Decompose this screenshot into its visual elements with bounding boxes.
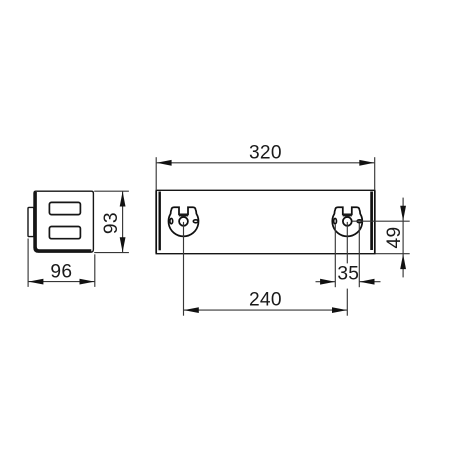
right socket centerline upper segment / dim 240 extension right bbox=[346, 222, 348, 264]
lamp socket left bbox=[169, 207, 199, 236]
dim 240 arrow left bbox=[184, 307, 199, 313]
svg-text:96: 96 bbox=[50, 261, 72, 282]
front view left outline edge (darkened) bbox=[155, 191, 157, 254]
dim 93 arrow down bbox=[120, 237, 126, 252]
dim 96 extension line left bbox=[27, 239, 29, 287]
dim 320 extension line right bbox=[374, 157, 376, 189]
dim 93 line bbox=[122, 191, 124, 252]
dim 240 arrow right bbox=[332, 307, 347, 313]
front view left end cap line bbox=[158, 192, 160, 251]
front view right end cap line bbox=[370, 192, 373, 251]
dim 320 arrow left bbox=[157, 160, 172, 166]
mounting tab bbox=[28, 207, 34, 236]
dim 49 arrow up (below lower line) bbox=[400, 254, 406, 269]
side view box outline bbox=[34, 191, 93, 252]
dim 49 line bbox=[402, 198, 404, 278]
dim 49 arrow down (above upper line) bbox=[400, 206, 406, 221]
dim 240 line bbox=[184, 309, 347, 311]
svg-text:93: 93 bbox=[101, 212, 122, 234]
dim 35 extension line right (from right pin) bbox=[358, 224, 360, 288]
dim 93 extension line top bbox=[94, 190, 129, 192]
front view box outline bbox=[156, 190, 375, 253]
dim 49 extension line upper (socket center) bbox=[353, 220, 410, 222]
lower slot bbox=[49, 227, 80, 239]
right socket centerline lower segment bbox=[346, 289, 348, 316]
svg-text:240: 240 bbox=[249, 289, 282, 310]
side view thick left+bottom edge bbox=[35, 192, 91, 251]
svg-text:49: 49 bbox=[384, 227, 405, 249]
dim 96 line bbox=[28, 281, 94, 283]
dim 35 tail line left bbox=[316, 281, 336, 283]
dim 35 arrow right (pointing left) bbox=[360, 279, 375, 285]
dim 93 extension line bottom bbox=[94, 252, 129, 254]
dim 320 arrow right bbox=[359, 160, 374, 166]
lamp socket right bbox=[332, 207, 362, 236]
svg-text:320: 320 bbox=[249, 142, 282, 163]
dim 96 arrow right bbox=[80, 279, 95, 285]
dim 96 arrow left bbox=[28, 279, 43, 285]
svg-text:35: 35 bbox=[337, 263, 359, 284]
dim 93 arrow up bbox=[120, 192, 126, 207]
dim 320 extension line left bbox=[155, 157, 157, 189]
front view right outline edge (darkened) bbox=[374, 191, 376, 254]
dim 35 tail line right bbox=[360, 281, 381, 283]
upper slot bbox=[49, 202, 80, 214]
dim 49 extension line lower (box bottom) bbox=[376, 253, 410, 255]
left socket centerline / dim 240 extension left bbox=[183, 222, 185, 316]
dim 320 line bbox=[157, 162, 375, 164]
dim 96 extension line right bbox=[94, 254, 96, 287]
dim 35 extension line left (from left pin) bbox=[334, 225, 336, 288]
dim 35 arrow left (pointing right) bbox=[320, 279, 335, 285]
